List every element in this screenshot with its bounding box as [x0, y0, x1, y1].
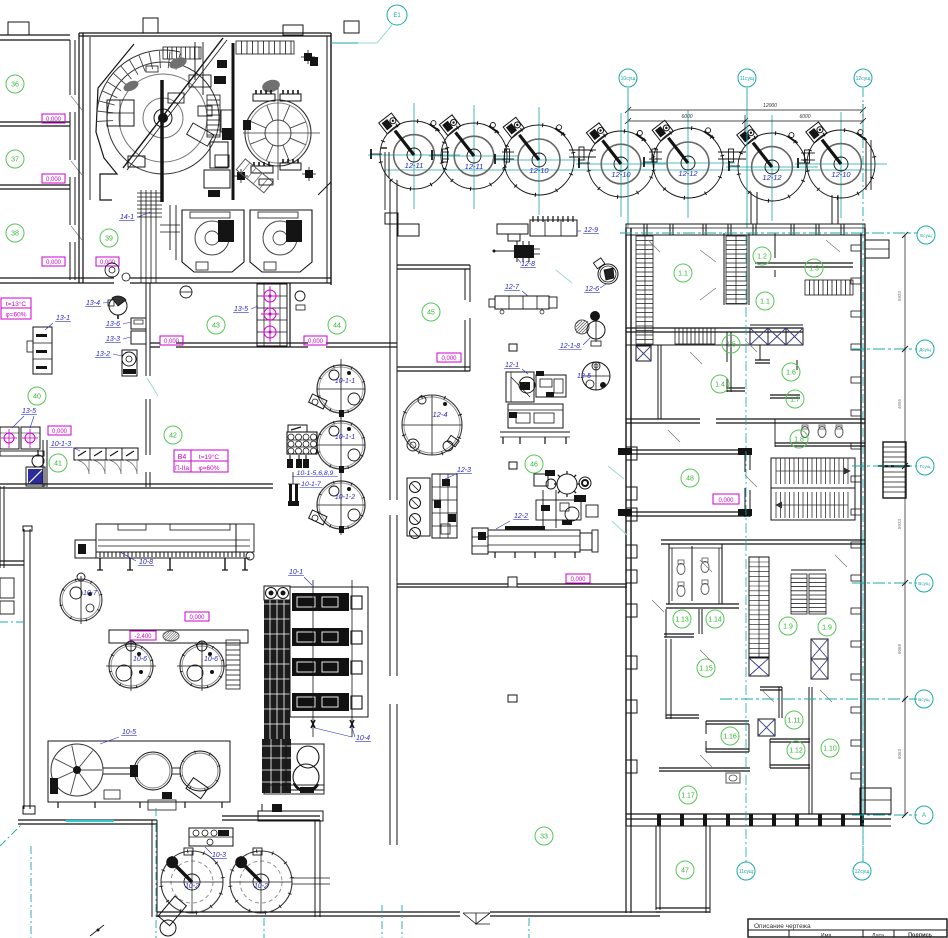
- small rects in mill room: [146, 66, 158, 72]
- svg-text:44: 44: [333, 323, 341, 330]
- green room labels lower building: [673, 610, 691, 628]
- door swing room 42: [147, 378, 158, 396]
- axis G sushch: [852, 465, 917, 467]
- svg-text:10-1-2: 10-1-2: [335, 494, 355, 501]
- equipment 12-1 legs: [500, 431, 570, 433]
- elevation mark room 45: [437, 353, 461, 362]
- svg-text:12-3: 12-3: [457, 467, 471, 474]
- interior wall x=727 upper: [723, 233, 725, 305]
- room label 44: [328, 316, 346, 334]
- svg-text:0,000: 0,000: [46, 260, 62, 266]
- svg-text:12-7: 12-7: [505, 284, 520, 291]
- svg-text:12000: 12000: [763, 103, 777, 109]
- column under tank 6: [750, 192, 752, 224]
- stairs room 1.3: [805, 280, 853, 295]
- stairs arc around mill: [97, 50, 180, 112]
- svg-text:41: 41: [54, 461, 62, 468]
- elevation mark hall: [185, 612, 209, 621]
- cyan centerline tank 12-10: [620, 113, 622, 217]
- svg-text:0,000: 0,000: [718, 498, 734, 504]
- svg-text:13-1: 13-1: [56, 315, 70, 322]
- svg-text:t=13°C: t=13°C: [6, 300, 26, 308]
- room label 36: [6, 75, 24, 93]
- svg-text:46: 46: [530, 462, 538, 469]
- central tower: [232, 43, 235, 200]
- axis B sushch: [720, 698, 917, 700]
- machine room outer walls: [79, 32, 331, 34]
- lower building bottom wall: [626, 813, 891, 815]
- svg-text:10-3: 10-3: [212, 852, 226, 859]
- thick vertical shaft bar: [160, 80, 164, 202]
- svg-text:1.9: 1.9: [783, 624, 793, 631]
- svg-text:φ=60%: φ=60%: [198, 465, 219, 472]
- tank 10-1-1: [317, 365, 365, 413]
- agitator arms of 10-1 tanks: [309, 394, 327, 409]
- equipment 13-4 peeler: [109, 297, 127, 315]
- svg-text:33: 33: [540, 834, 548, 841]
- svg-text:36: 36: [11, 82, 19, 89]
- svg-text:12-10: 12-10: [831, 170, 851, 179]
- equipment 13-2 slicer: [122, 350, 137, 376]
- svg-text:10-1-1: 10-1-1: [335, 434, 355, 441]
- tank 12-10: [588, 131, 654, 197]
- door swing diagonals right building: [648, 240, 660, 252]
- south wall vertical to bottom: [151, 820, 153, 917]
- tank 12-12: [653, 128, 723, 198]
- hall south wall left part: [18, 819, 157, 821]
- wall segment y=820 middle: [222, 815, 320, 817]
- room 1.15 walls: [665, 639, 667, 719]
- svg-text:12-11: 12-11: [465, 162, 484, 171]
- hose stations: [289, 455, 291, 459]
- tank 12-10: [504, 125, 574, 195]
- svg-text:0,000: 0,000: [46, 117, 62, 123]
- svg-text:40: 40: [33, 394, 41, 401]
- svg-text:Бсущ: Бсущ: [918, 697, 930, 702]
- room label 40: [28, 387, 46, 405]
- svg-text:1.1: 1.1: [760, 299, 770, 306]
- grid cabinet 2x2: [107, 100, 134, 126]
- axis circle E1: [387, 5, 407, 25]
- column small square mid: [509, 344, 517, 351]
- room label 48: [681, 469, 699, 487]
- svg-text:12-10: 12-10: [529, 166, 549, 175]
- ladder top right: [236, 41, 294, 54]
- elevator x-boxes: [750, 328, 768, 345]
- funnel of 10-2: [158, 896, 186, 926]
- column on hall wall: [508, 577, 517, 587]
- elevation mark room 38: [42, 257, 65, 266]
- equipment 12-7 conveyor: [495, 296, 549, 309]
- svg-text:1.4: 1.4: [715, 382, 725, 389]
- svg-text:0,000: 0,000: [46, 177, 62, 183]
- room label 42: [164, 426, 182, 444]
- elevation mark room 39: [96, 257, 119, 266]
- svg-text:6000: 6000: [681, 114, 692, 120]
- tank 12-11: [441, 123, 507, 189]
- wall tab near tanks: [398, 224, 419, 236]
- machine room top wall tab: [143, 18, 158, 33]
- svg-text:37: 37: [11, 157, 19, 164]
- svg-text:10-8: 10-8: [139, 559, 153, 566]
- svg-text:10сущ: 10сущ: [621, 76, 636, 82]
- equipment 10-3: [189, 828, 233, 846]
- wall x=809 lower bldg: [808, 687, 810, 814]
- svg-text:10-5: 10-5: [122, 729, 136, 736]
- room label 38: [6, 224, 24, 242]
- room label 47: [676, 861, 694, 879]
- tank row right pipe: [865, 140, 867, 190]
- axis D sushch: [852, 348, 917, 350]
- svg-text:Дата: Дата: [872, 933, 885, 938]
- building left wall extension below: [625, 826, 627, 913]
- svg-text:1.6: 1.6: [786, 370, 796, 377]
- svg-text:10-7: 10-7: [83, 590, 98, 597]
- svg-text:10-1: 10-1: [289, 569, 303, 576]
- tank 12-4: [402, 395, 462, 455]
- stairs right of 10-6: [226, 640, 240, 689]
- svg-text:12-8: 12-8: [521, 261, 535, 268]
- equipment 12-2 filler conveyor: [488, 530, 580, 552]
- green room labels upper building: [674, 264, 692, 282]
- equipment 12-6: [598, 264, 618, 284]
- svg-text:12-5: 12-5: [577, 373, 591, 380]
- long wall x=390: [389, 180, 391, 236]
- svg-text:12-12: 12-12: [678, 169, 698, 178]
- tank row left pipe: [381, 147, 387, 149]
- svg-text:П-IIa: П-IIa: [175, 465, 189, 472]
- svg-text:12сущ: 12сущ: [855, 869, 870, 875]
- machine room bottom left machines unit 1: [182, 210, 244, 272]
- washbasin 1.17: [726, 773, 740, 783]
- left rooms block top wall: [0, 34, 70, 36]
- mid horizontal wall upper building: [626, 327, 803, 329]
- svg-text:13-5: 13-5: [22, 408, 36, 415]
- svg-text:Есущ: Есущ: [920, 233, 932, 238]
- exterior staircase right: [883, 442, 906, 498]
- left rooms right wall: [69, 40, 71, 95]
- machine room bottom left machines unit 2: [250, 210, 312, 272]
- svg-text:0,000: 0,000: [308, 339, 324, 345]
- axis circle 11 sushch bottom: [745, 235, 747, 862]
- wall 1.2/1.3 divider: [774, 233, 776, 258]
- svg-text:Дсущ: Дсущ: [919, 347, 931, 352]
- machine 10-1 bars: [292, 593, 349, 611]
- equipment 12-8 dark: [514, 245, 534, 258]
- mill circle left - concentric circles: [107, 62, 219, 174]
- octagon corner cut bottom right: [318, 182, 331, 195]
- toilet room divider: [774, 419, 776, 447]
- svg-text:Имя: Имя: [821, 933, 832, 938]
- svg-text:В4: В4: [178, 454, 187, 461]
- svg-text:0,000: 0,000: [189, 615, 205, 621]
- stoves 13-5 kitchen: [0, 427, 19, 449]
- elevation mark near hall: [566, 574, 590, 583]
- svg-text:-2,400: -2,400: [134, 634, 152, 640]
- window sills right wall: [851, 245, 861, 251]
- door swings of left rooms: [71, 96, 82, 110]
- dimension line 6000 6000: [628, 120, 863, 122]
- equipment 12-1 extra: [520, 382, 530, 390]
- room 47 walls: [655, 826, 657, 910]
- svg-text:10-1-1: 10-1-1: [335, 378, 355, 385]
- bottom wall of room 38 band: [0, 277, 114, 279]
- upper building bottom wall: [626, 418, 700, 420]
- rack 13-5 side wall: [289, 283, 291, 347]
- svg-text:1.8: 1.8: [794, 437, 804, 444]
- shelf with elevation: [109, 630, 248, 643]
- svg-text:42: 42: [169, 433, 177, 440]
- diagonal chute lower: [236, 159, 273, 193]
- svg-text:1.10: 1.10: [823, 746, 837, 753]
- equipment bar above 10-2: [258, 811, 323, 821]
- elevation mark room 43: [160, 336, 183, 345]
- svg-text:Описание чертежа: Описание чертежа: [754, 923, 811, 930]
- exterior platform top right: [865, 240, 889, 258]
- machine room extra blocks: [217, 60, 227, 68]
- svg-text:10-2: 10-2: [185, 883, 199, 890]
- svg-text:39: 39: [105, 236, 113, 243]
- toilet block lower building: [668, 544, 670, 604]
- pipes 14-1: [140, 190, 142, 283]
- svg-text:5933: 5933: [897, 290, 902, 301]
- small stairs pair lower bldg: [791, 574, 807, 614]
- svg-text:45: 45: [427, 310, 435, 317]
- wall 1.3 area: [755, 262, 853, 264]
- toilet fixtures upper: [801, 427, 809, 438]
- hall left wall top piece: [0, 560, 24, 562]
- right dimension chain: [904, 235, 906, 815]
- svg-text:10-1-5,6,8,9: 10-1-5,6,8,9: [297, 470, 334, 477]
- svg-text:13-5: 13-5: [234, 306, 248, 313]
- cyan vertical axis x=863 lower: [862, 540, 864, 862]
- tank 10-7: [60, 579, 102, 621]
- machine 10-2 left: [161, 851, 223, 913]
- door swings building light: [608, 466, 624, 479]
- column small square mid2: [509, 462, 517, 469]
- room label 41: [49, 454, 67, 472]
- axis circle 11sushch: [738, 69, 756, 87]
- svg-text:12-6: 12-6: [585, 286, 599, 293]
- svg-text:1.9: 1.9: [822, 625, 832, 632]
- main staircase mid right: [771, 458, 855, 520]
- axis E sushch: [620, 232, 917, 234]
- wall x=658 rooms 1.4: [657, 345, 659, 419]
- svg-text:14-1: 14-1: [120, 214, 134, 221]
- machine 10-1 top circles: [264, 586, 290, 600]
- room label 39: [100, 229, 118, 247]
- cyan centerline tank 12-11: [413, 103, 415, 209]
- svg-text:12-9: 12-9: [584, 227, 598, 234]
- fan units 10-1-3: [74, 448, 138, 460]
- wall x=760 room 1.6: [759, 345, 761, 360]
- elevation mark room 44: [304, 336, 327, 345]
- svg-text:5933: 5933: [897, 518, 902, 529]
- svg-text:Гсущ: Гсущ: [920, 464, 931, 469]
- room 1.11 walls: [778, 687, 780, 718]
- svg-text:43: 43: [212, 323, 220, 330]
- x-box below stair: [749, 658, 769, 676]
- svg-text:12-11: 12-11: [405, 161, 424, 170]
- svg-text:10-2: 10-2: [254, 883, 268, 890]
- washbasin: [32, 455, 44, 467]
- svg-text:10-6: 10-6: [133, 656, 147, 663]
- left wall pilasters: [626, 447, 637, 460]
- comb rows above press: [253, 94, 275, 101]
- svg-text:1.13: 1.13: [675, 617, 689, 624]
- svg-text:6000: 6000: [799, 114, 810, 120]
- svg-text:Е1: Е1: [393, 13, 401, 19]
- svg-text:А: А: [922, 813, 926, 819]
- axis circle 12sushch top: [854, 69, 872, 87]
- room label 33: [535, 827, 553, 845]
- equipment 12-2 extra: [541, 505, 550, 511]
- wall between room 37 and 38: [0, 184, 70, 186]
- svg-text:10-1-7: 10-1-7: [301, 481, 321, 488]
- machine 10-1 tower dense: [264, 600, 290, 739]
- x-box below stair hatch: [636, 346, 651, 361]
- equipment 10-1-5,6,8,9 valve station: [288, 425, 307, 432]
- stair hatch on left wall: [636, 236, 653, 344]
- equipment 12-1 washer: [506, 372, 534, 402]
- machine 10-1 bottom bar: [264, 785, 324, 794]
- elevation mark room 42: [48, 426, 71, 435]
- svg-text:10-1-3: 10-1-3: [51, 441, 71, 448]
- svg-text:1.17: 1.17: [681, 793, 695, 800]
- svg-text:1.2: 1.2: [757, 254, 767, 261]
- svg-text:1.12: 1.12: [789, 748, 803, 755]
- equipment 12-3 rack: [407, 478, 430, 536]
- tank 10-1-1: [317, 421, 365, 469]
- equipment 12-5: [582, 362, 610, 390]
- svg-text:6068: 6068: [897, 643, 902, 654]
- column square room 33 third: [508, 695, 517, 702]
- hall left wall: [23, 529, 25, 809]
- cyan axis marks bottom left: [0, 621, 25, 623]
- machine 10-1 frame verticals: [312, 580, 314, 737]
- svg-text:0,000: 0,000: [52, 429, 68, 435]
- svg-text:0,000: 0,000: [570, 577, 586, 583]
- svg-text:12-1-8: 12-1-8: [560, 343, 580, 350]
- right building top wall: [626, 224, 865, 235]
- right building left wall: [625, 228, 627, 826]
- cyan centerline tank 12-12: [687, 110, 689, 218]
- equipment 13-6 box: [131, 318, 146, 329]
- wall y=345 of rooms 43 44: [150, 342, 160, 344]
- tank 12-10: [807, 130, 875, 198]
- svg-text:1.5: 1.5: [726, 342, 736, 349]
- bottom door triangles: [463, 913, 476, 924]
- right building right wall: [860, 233, 862, 814]
- svg-text:1.14: 1.14: [708, 617, 722, 624]
- cyan wall highlight: [66, 820, 114, 822]
- svg-text:0,000: 0,000: [164, 339, 180, 345]
- svg-text:10-4: 10-4: [356, 735, 370, 742]
- svg-text:12-12: 12-12: [762, 173, 782, 182]
- svg-text:11сущ: 11сущ: [740, 76, 754, 82]
- rack 13-5 with registration marks: [257, 284, 287, 346]
- svg-text:13-4: 13-4: [86, 300, 100, 307]
- tank connectors: [443, 151, 449, 153]
- svg-text:11сущ: 11сущ: [739, 869, 753, 875]
- room 1.17 top wall: [659, 767, 750, 769]
- axis V sushch: [852, 582, 917, 584]
- elevation mark room 36: [42, 114, 65, 123]
- svg-text:φ=60%: φ=60%: [5, 312, 26, 319]
- climate table B4: [174, 450, 228, 472]
- machine room inner platform boundary: [96, 44, 134, 200]
- connector 10-2 right: [292, 877, 330, 879]
- hall top wall y=584: [397, 583, 508, 585]
- equipment 12-1-8: [575, 320, 589, 334]
- bottom wall of lower hall: [157, 911, 460, 913]
- tank 10-1-2: [317, 481, 365, 529]
- diagonal conveyor: [123, 38, 223, 168]
- machine room pipes right of mill: [169, 205, 171, 250]
- room label 43: [207, 316, 225, 334]
- equipment 12-2 mixer top: [557, 474, 577, 494]
- cyan centerline tank 12-12: [771, 115, 773, 221]
- machine 10-5: [48, 741, 230, 802]
- x-box near 1.16: [758, 719, 775, 736]
- tank 12-11: [380, 121, 448, 189]
- dimension line 12000: [628, 109, 863, 111]
- corridor bottom wall y=486: [0, 483, 60, 485]
- room 1.16 enclosure: [706, 720, 749, 722]
- room 1.12 walls: [770, 738, 810, 740]
- svg-text:12-1: 12-1: [505, 362, 519, 369]
- tank 12-12: [738, 133, 806, 201]
- wall between room 36 and 37: [0, 121, 70, 123]
- svg-text:47: 47: [681, 868, 689, 875]
- vertical stair lower building: [749, 557, 769, 657]
- svg-text:12-4: 12-4: [432, 410, 447, 419]
- conveyor 10-8: [96, 524, 236, 552]
- cyan centerline tank 12-10: [840, 112, 842, 218]
- room 45 walls: [397, 264, 470, 266]
- small boxes on left hall wall: [0, 578, 14, 598]
- walls rooms 1.13 1.14: [666, 603, 739, 605]
- bolt marks 10-4: [311, 720, 315, 728]
- room label 46: [525, 455, 543, 473]
- roof tab upper-left: [8, 22, 29, 35]
- cyan centerline tank 12-10: [538, 107, 540, 215]
- lower building top wall: [661, 539, 865, 541]
- equipment 13-3 box: [131, 331, 146, 344]
- gray blob ellipses: [168, 55, 188, 71]
- axis circle 12 sushch bottom: [853, 862, 871, 880]
- svg-text:12-2: 12-2: [514, 513, 528, 520]
- tank 10-6 left: [109, 644, 153, 688]
- right wall of 10-2 room: [314, 820, 316, 917]
- elevation mark room 48: [713, 494, 739, 504]
- equipment 10-1-7 pump: [292, 472, 294, 484]
- wall stub y=390: [727, 387, 745, 389]
- svg-text:1.1: 1.1: [678, 271, 688, 278]
- svg-text:10-6: 10-6: [204, 656, 218, 663]
- cyan centerline tank 12-11: [473, 105, 475, 209]
- svg-text:4655: 4655: [897, 398, 902, 409]
- wall x=146 between room 40 and 42: [145, 283, 147, 376]
- kitchen shelf: [0, 451, 44, 456]
- climate label t=13: [1, 298, 31, 319]
- room label 37: [6, 150, 24, 168]
- fan room wall: [42, 440, 44, 487]
- left edge wall lower: [0, 486, 1, 568]
- press circle right - spoked: [245, 100, 311, 166]
- stair hatch x=727: [726, 236, 747, 304]
- dark block on right wall: [310, 57, 318, 66]
